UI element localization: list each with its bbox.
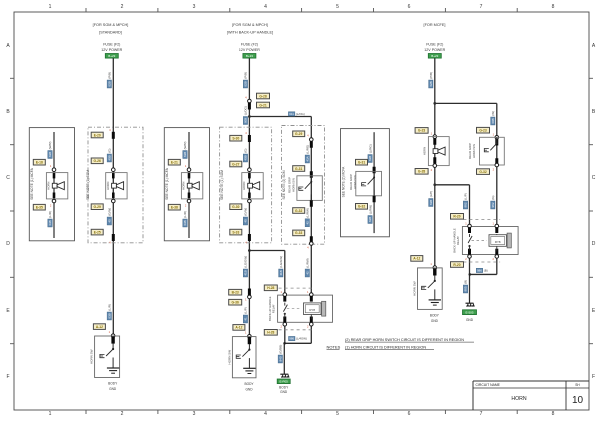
svg-text:63B: 63B — [48, 220, 52, 225]
svg-text:63B: 63B — [368, 156, 372, 161]
svg-text:10: 10 — [572, 395, 584, 406]
svg-text:E-21: E-21 — [171, 161, 178, 165]
svg-text:63B: 63B — [429, 200, 433, 205]
svg-text:G-21: G-21 — [259, 103, 266, 107]
svg-text:E-25: E-25 — [94, 230, 101, 234]
svg-text:GND: GND — [466, 318, 474, 322]
svg-text:(L/P): (L/P) — [464, 193, 468, 200]
svg-text:(B): (B) — [484, 269, 488, 273]
svg-text:(L/4GW): (L/4GW) — [296, 337, 307, 341]
svg-text:2: 2 — [121, 4, 124, 10]
svg-text:E-35: E-35 — [36, 206, 43, 210]
svg-text:HORN: HORN — [242, 182, 246, 190]
svg-text:GND: GND — [431, 319, 439, 323]
svg-text:[FOR SGM & MPCH]: [FOR SGM & MPCH] — [232, 23, 268, 27]
svg-text:BODY: BODY — [430, 314, 440, 318]
svg-text:E-505: E-505 — [465, 310, 473, 314]
svg-text:41B: 41B — [244, 270, 248, 275]
svg-text:1: 1 — [49, 411, 52, 417]
svg-text:[FOR SGM & MPCH]: [FOR SGM & MPCH] — [93, 23, 129, 27]
svg-text:(P/B): (P/B) — [108, 72, 112, 79]
svg-text:42: 42 — [305, 271, 309, 275]
svg-text:40: 40 — [244, 219, 248, 223]
svg-text:SEE NOTE (2) MCFA: SEE NOTE (2) MCFA — [342, 166, 346, 198]
svg-text:(LG/GW): (LG/GW) — [279, 256, 283, 268]
svg-text:(L/P): (L/P) — [429, 191, 433, 198]
svg-text:HORN SW: HORN SW — [291, 178, 295, 192]
svg-text:4: 4 — [264, 411, 267, 417]
svg-text:HORN: HORN — [106, 182, 110, 190]
svg-text:SEE NOTE (1) MCFA: SEE NOTE (1) MCFA — [30, 167, 34, 199]
svg-text:(L/R): (L/R) — [48, 211, 52, 218]
svg-text:(L/OG): (L/OG) — [244, 106, 248, 115]
svg-text:HORN: HORN — [182, 182, 186, 190]
svg-text:G-29: G-29 — [295, 132, 302, 136]
svg-text:(L/RW): (L/RW) — [306, 208, 310, 217]
svg-text:12V POWER: 12V POWER — [424, 48, 445, 52]
svg-text:G-32: G-32 — [295, 209, 302, 213]
svg-text:6: 6 — [408, 4, 411, 10]
svg-text:982: 982 — [464, 202, 468, 207]
svg-text:C: C — [592, 175, 596, 181]
svg-text:G-27: G-27 — [232, 162, 239, 166]
svg-text:12V POWER: 12V POWER — [101, 48, 122, 52]
svg-text:(B): (B) — [464, 280, 468, 284]
svg-text:(2) REAR GRIP HORN SWITCH CIRC: (2) REAR GRIP HORN SWITCH CIRCUIT IS DIF… — [345, 338, 464, 342]
svg-text:12V POWER: 12V POWER — [239, 48, 260, 52]
svg-text:SEE NOTE (1) SGM: SEE NOTE (1) SGM — [86, 170, 90, 200]
svg-text:G-28: G-28 — [259, 94, 266, 98]
svg-text:R-20: R-20 — [453, 215, 460, 219]
svg-text:G-30: G-30 — [232, 205, 239, 209]
svg-text:HORN SW: HORN SW — [90, 349, 94, 364]
svg-text:63B: 63B — [183, 220, 187, 225]
svg-text:HORN: HORN — [422, 147, 426, 155]
svg-text:SEE NOTE (1) SGM: SEE NOTE (1) SGM — [220, 170, 224, 200]
svg-text:7: 7 — [480, 411, 483, 417]
svg-text:5: 5 — [336, 411, 339, 417]
svg-text:SEE NOTE (2) SGM: SEE NOTE (2) SGM — [282, 170, 286, 199]
svg-text:R-20: R-20 — [453, 263, 460, 267]
svg-text:(L/RG): (L/RG) — [368, 144, 372, 153]
svg-text:(G/W): (G/W) — [244, 208, 248, 216]
svg-text:(P/B): (P/B) — [429, 72, 433, 79]
svg-text:BODY: BODY — [279, 385, 289, 389]
svg-text:RY8: RY8 — [495, 240, 501, 244]
svg-text:C: C — [6, 175, 10, 181]
svg-text:6: 6 — [408, 411, 411, 417]
svg-text:985: 985 — [464, 286, 468, 291]
svg-text:G-36: G-36 — [232, 301, 239, 305]
svg-text:E-18: E-18 — [36, 161, 43, 165]
svg-text:3: 3 — [193, 411, 196, 417]
svg-text:CIRCUIT NAME: CIRCUIT NAME — [476, 383, 501, 387]
svg-text:E-20: E-20 — [94, 133, 101, 137]
svg-text:A-12: A-12 — [413, 257, 420, 261]
svg-text:RY8: RY8 — [309, 308, 315, 312]
svg-text:GND: GND — [109, 387, 117, 391]
svg-text:(L/RG): (L/RG) — [306, 145, 310, 154]
svg-text:8: 8 — [552, 4, 555, 10]
svg-text:982: 982 — [491, 202, 495, 207]
svg-text:41B: 41B — [279, 270, 283, 275]
svg-text:(W/R): (W/R) — [48, 141, 52, 149]
svg-text:G-31: G-31 — [295, 167, 302, 171]
svg-text:FUSE (F2): FUSE (F2) — [241, 43, 258, 47]
svg-text:2: 2 — [121, 411, 124, 417]
svg-text:611: 611 — [289, 112, 294, 116]
svg-text:62B: 62B — [107, 81, 111, 86]
svg-text:(P/B): (P/B) — [244, 72, 248, 79]
svg-text:986: 986 — [289, 337, 294, 341]
svg-text:[STANDARD]: [STANDARD] — [99, 31, 122, 35]
svg-text:3: 3 — [193, 4, 196, 10]
svg-text:A-12: A-12 — [96, 325, 103, 329]
svg-text:G-33: G-33 — [295, 231, 302, 235]
svg-text:S-33: S-33 — [232, 230, 239, 234]
svg-text:HORN SW: HORN SW — [413, 281, 417, 296]
svg-text:S-30: S-30 — [232, 137, 239, 141]
svg-text:H-28: H-28 — [267, 331, 274, 335]
svg-text:B+23: B+23 — [246, 54, 253, 58]
svg-text:RELAY: RELAY — [271, 304, 275, 313]
svg-text:63B: 63B — [368, 217, 372, 222]
svg-text:B+23: B+23 — [431, 54, 438, 58]
svg-text:(W): (W) — [491, 111, 495, 116]
svg-text:40B: 40B — [244, 155, 248, 160]
svg-text:A-12: A-12 — [235, 326, 242, 330]
svg-text:(G): (G) — [244, 148, 248, 152]
svg-text:4: 4 — [264, 4, 267, 10]
svg-text:G-32: G-32 — [358, 205, 365, 209]
svg-text:B+23: B+23 — [108, 54, 115, 58]
svg-text:63B: 63B — [48, 152, 52, 157]
svg-text:F: F — [6, 374, 9, 380]
svg-text:(G): (G) — [491, 195, 495, 199]
svg-text:G-32: G-32 — [479, 170, 486, 174]
svg-text:E-P05: E-P05 — [280, 380, 289, 384]
svg-text:BODY: BODY — [108, 382, 118, 386]
svg-text:G-28: G-28 — [418, 170, 425, 174]
svg-text:62B: 62B — [244, 81, 248, 86]
svg-text:[WITH BACK-UP HANDLE]: [WITH BACK-UP HANDLE] — [227, 31, 273, 35]
svg-text:(L/R): (L/R) — [183, 211, 187, 218]
svg-text:1: 1 — [49, 4, 52, 10]
svg-text:SH: SH — [575, 383, 580, 387]
svg-text:60B: 60B — [244, 118, 248, 123]
svg-text:HORN SW: HORN SW — [227, 350, 231, 365]
svg-text:(G/BB): (G/BB) — [279, 345, 283, 354]
svg-text:(L/R): (L/R) — [108, 304, 112, 311]
svg-text:GND: GND — [280, 390, 288, 394]
svg-text:HORN: HORN — [511, 396, 527, 402]
svg-text:G-23: G-23 — [479, 129, 486, 133]
svg-text:NOTES: NOTES — [327, 345, 341, 350]
svg-text:(LG/GW): (LG/GW) — [244, 256, 248, 268]
svg-text:[FOR MCFE]: [FOR MCFE] — [424, 23, 446, 27]
svg-text:SEE NOTE (1) MCFA: SEE NOTE (1) MCFA — [165, 167, 169, 199]
svg-text:D: D — [592, 241, 596, 247]
svg-text:F: F — [592, 374, 595, 380]
svg-text:H-28: H-28 — [267, 286, 274, 290]
svg-text:GND: GND — [245, 387, 253, 391]
svg-text:FUSE (F2): FUSE (F2) — [426, 43, 443, 47]
svg-text:(L/P): (L/P) — [244, 307, 248, 314]
svg-text:40B: 40B — [107, 155, 111, 160]
svg-text:G-29: G-29 — [94, 205, 101, 209]
svg-text:63B: 63B — [183, 152, 187, 157]
svg-text:7: 7 — [480, 4, 483, 10]
svg-text:E-38: E-38 — [171, 206, 178, 210]
svg-text:986: 986 — [477, 269, 482, 273]
svg-text:42: 42 — [305, 221, 309, 225]
svg-text:60B: 60B — [491, 118, 495, 123]
svg-text:40: 40 — [107, 219, 111, 223]
svg-text:FUSE (F2): FUSE (F2) — [103, 43, 120, 47]
svg-text:(G/W): (G/W) — [108, 208, 112, 216]
svg-text:940: 940 — [278, 356, 282, 361]
svg-text:63B: 63B — [107, 313, 111, 318]
svg-text:8: 8 — [552, 411, 555, 417]
svg-text:43A: 43A — [305, 156, 309, 161]
svg-text:(G): (G) — [108, 148, 112, 152]
svg-text:41: 41 — [244, 317, 248, 321]
svg-text:HORN SW: HORN SW — [472, 144, 476, 158]
svg-text:G-31: G-31 — [358, 161, 365, 165]
svg-text:B-23: B-23 — [232, 291, 239, 295]
svg-text:62B: 62B — [429, 81, 433, 86]
svg-text:HORN: HORN — [47, 182, 51, 190]
svg-text:(L/RW): (L/RW) — [368, 205, 372, 214]
svg-text:(L/RW): (L/RW) — [306, 258, 310, 267]
svg-text:(W/R): (W/R) — [183, 141, 187, 149]
svg-text:(1) HORN CIRCUIT IS DIFFERENT: (1) HORN CIRCUIT IS DIFFERENT IN REGION — [345, 346, 426, 350]
svg-text:(L/OG): (L/OG) — [296, 112, 305, 116]
svg-text:5: 5 — [336, 4, 339, 10]
svg-text:RELAY: RELAY — [456, 236, 460, 245]
svg-text:G-23: G-23 — [418, 129, 425, 133]
svg-text:G-26: G-26 — [94, 159, 101, 163]
svg-text:BODY: BODY — [244, 382, 254, 386]
svg-text:D: D — [6, 241, 10, 247]
